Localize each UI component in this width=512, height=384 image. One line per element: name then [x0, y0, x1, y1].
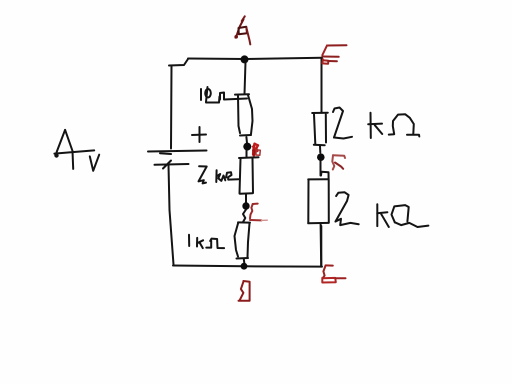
node label E bottom-right red — [326, 264, 333, 266]
label R4 value 2 kOhm — [333, 108, 343, 138]
node label right-branch red mark — [333, 155, 345, 158]
resistor R4 body upper right — [312, 112, 328, 114]
resistor R5 body lower right — [308, 178, 329, 180]
resistor R1 body — [235, 93, 249, 95]
wire right branch upper vertical — [321, 58, 323, 113]
junction node G dot — [242, 202, 249, 209]
battery B1 negative plate — [155, 163, 189, 166]
node label V middle red scribble — [253, 144, 254, 155]
resistor R5 notch — [321, 172, 329, 179]
label R5 value 2 kOhm — [336, 192, 349, 221]
junction node A dot — [241, 55, 249, 63]
wire left rail upper — [170, 66, 173, 149]
label battery value 4 V — [56, 130, 66, 156]
wire R3 to node D — [243, 259, 246, 263]
resistor R3 body — [238, 221, 250, 223]
wire R5 to bottom rail — [320, 224, 323, 267]
wire R2 to node G — [245, 194, 247, 203]
wire R4 to node right — [319, 146, 321, 153]
battery B1 plate tick — [160, 152, 171, 155]
resistor R2 body — [239, 156, 259, 159]
battery B1 negative tick — [163, 161, 171, 169]
wire node B to R2 — [246, 150, 248, 157]
junction node right dot — [317, 153, 325, 161]
label R2 value 2 kOhm — [199, 166, 207, 183]
wire node A to R1 — [245, 62, 246, 94]
node label B top-right red — [327, 44, 347, 46]
wire top rail A to top-right corner — [188, 58, 322, 59]
wire bottom rail — [173, 266, 322, 267]
battery value 4 blob — [54, 153, 58, 157]
wire right branch lower vertical — [320, 226, 322, 267]
node label G red — [253, 203, 258, 205]
node label A red — [242, 16, 245, 21]
wire left rail lower — [169, 165, 174, 265]
wire node right to R5 — [320, 161, 322, 176]
label R1 value 18 Ohm — [200, 89, 202, 100]
label R3 value 1 kOhm — [188, 235, 190, 246]
wire R1 to node B — [245, 137, 248, 143]
junction node B dot — [243, 143, 251, 151]
wire node G to R3 — [243, 210, 246, 223]
junction node D dot — [241, 263, 248, 270]
battery B1 positive plate — [148, 151, 207, 152]
wire top-left jog — [169, 59, 188, 66]
node label D red — [243, 281, 249, 300]
battery B1 plus sign — [192, 134, 206, 137]
